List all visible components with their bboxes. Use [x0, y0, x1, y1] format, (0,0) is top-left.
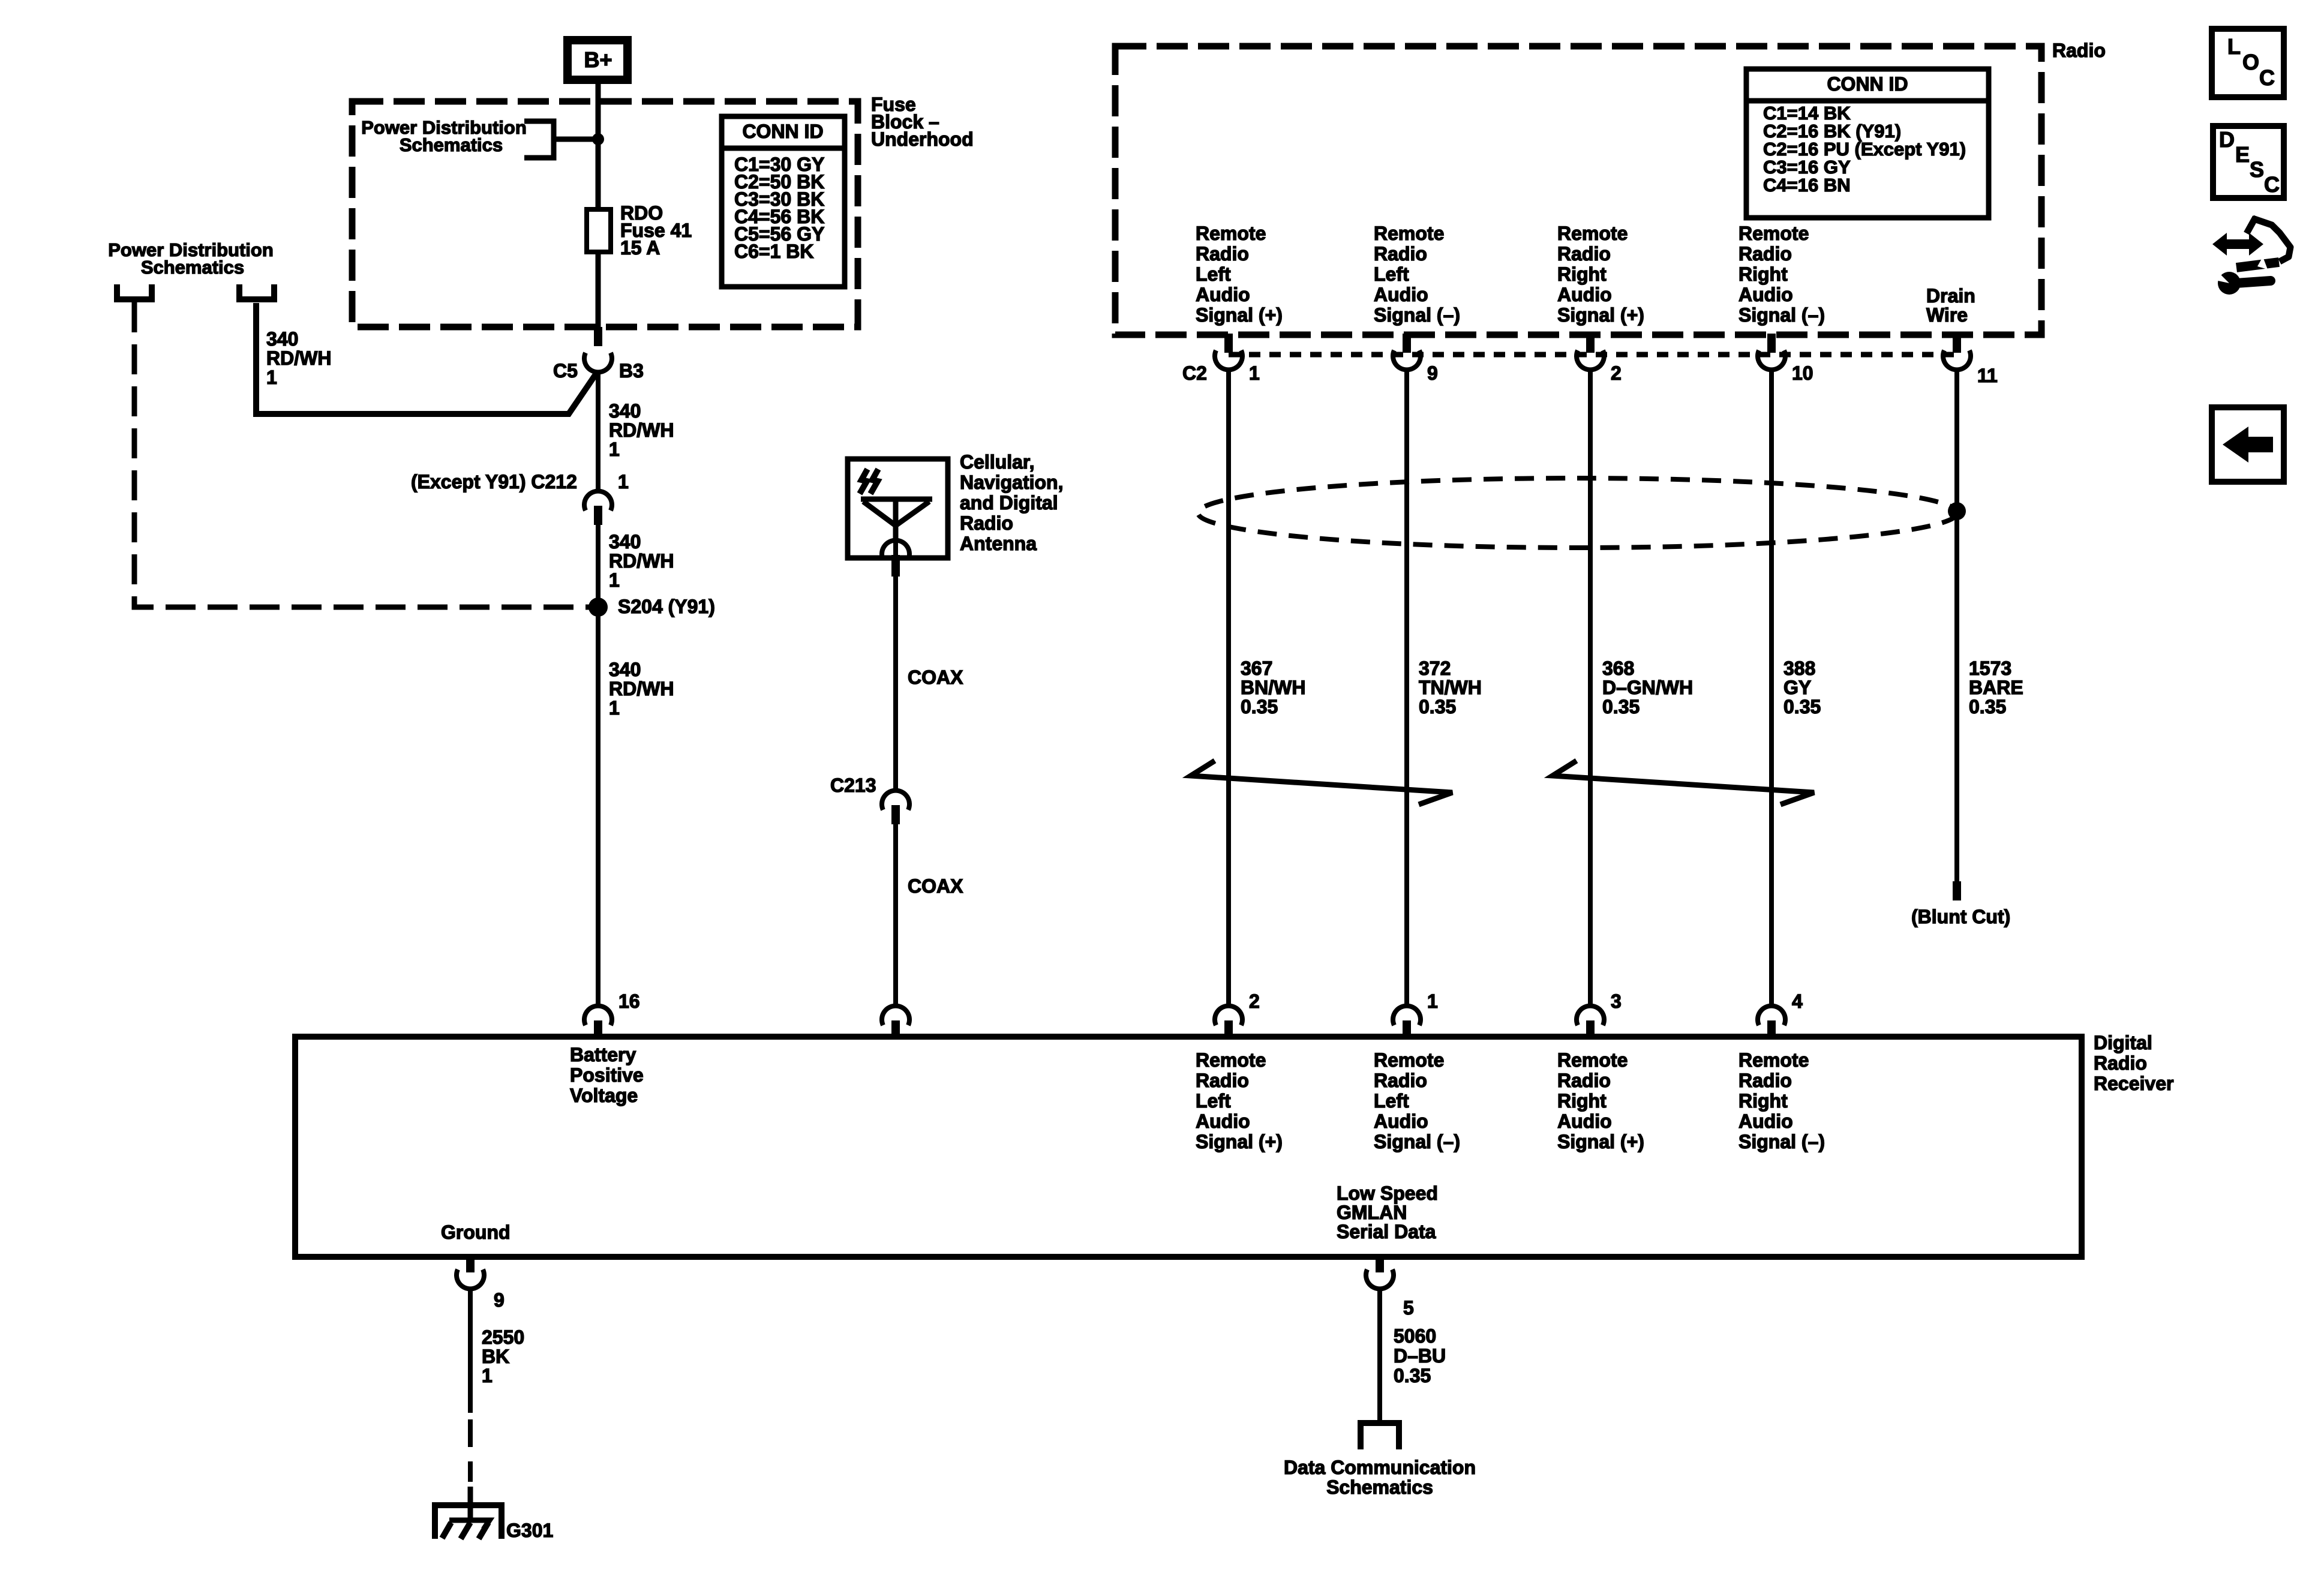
svg-text:RD/WH: RD/WH — [609, 550, 674, 572]
svg-text:Remote: Remote — [1196, 1049, 1266, 1071]
wire fuse to fuse block bottom — [596, 252, 601, 327]
svg-text:Left: Left — [1374, 1090, 1409, 1112]
svg-text:Radio: Radio — [1739, 243, 1792, 265]
svg-text:BARE: BARE — [1969, 677, 2023, 698]
wire drain — [1954, 369, 1959, 882]
svg-text:Antenna: Antenna — [960, 533, 1037, 554]
svg-text:Radio: Radio — [1196, 1070, 1249, 1091]
receiver connector pin 1 — [1393, 990, 1438, 1038]
receiver connector pin 2 — [1215, 990, 1260, 1038]
fuse block - underhood dashed box — [352, 101, 858, 327]
svg-text:340: 340 — [609, 531, 641, 553]
svg-text:Ground: Ground — [441, 1221, 511, 1243]
radio connector pin 1 — [1215, 334, 1260, 384]
svg-text:Data Communication: Data Communication — [1284, 1457, 1476, 1478]
svg-text:Audio: Audio — [1557, 284, 1612, 305]
svg-text:Navigation,: Navigation, — [960, 472, 1063, 493]
svg-text:4: 4 — [1792, 990, 1803, 1012]
svg-text:C5: C5 — [553, 360, 578, 382]
svg-text:Remote: Remote — [1739, 1049, 1809, 1071]
svg-text:Radio: Radio — [1374, 1070, 1427, 1091]
svg-text:Left: Left — [1196, 1090, 1231, 1112]
antenna connector — [882, 541, 909, 577]
power distribution schematics reference (inside fuse block) — [361, 117, 554, 158]
wire audio 1 — [1226, 369, 1231, 1007]
svg-text:9: 9 — [494, 1289, 505, 1311]
svg-text:Audio: Audio — [1739, 284, 1793, 305]
wire C5 branch to power distribution bracket B — [256, 303, 597, 414]
svg-text:Remote: Remote — [1557, 223, 1628, 244]
B+ battery terminal — [568, 40, 627, 80]
svg-text:D–BU: D–BU — [1394, 1345, 1446, 1367]
svg-text:CONN ID: CONN ID — [742, 121, 823, 142]
wire bracket to B+ wire — [554, 137, 598, 142]
svg-text:D–GN/WH: D–GN/WH — [1602, 677, 1693, 698]
svg-text:BN/WH: BN/WH — [1241, 677, 1305, 698]
svg-text:C2: C2 — [1182, 362, 1207, 384]
off-page bracket to data schematics — [1361, 1423, 1399, 1449]
svg-text:S204 (Y91): S204 (Y91) — [618, 596, 715, 617]
svg-text:367: 367 — [1241, 658, 1272, 679]
svg-text:5: 5 — [1403, 1297, 1414, 1319]
svg-text:RD/WH: RD/WH — [609, 678, 674, 700]
svg-text:C213: C213 — [830, 775, 876, 796]
svg-text:3: 3 — [1611, 990, 1622, 1012]
svg-text:2550: 2550 — [482, 1326, 524, 1348]
wire audio 3 — [1588, 369, 1593, 1007]
svg-text:B3: B3 — [619, 360, 644, 382]
connector C213 — [830, 775, 909, 824]
svg-text:Radio: Radio — [1739, 1070, 1792, 1091]
svg-text:Underhood: Underhood — [871, 128, 974, 150]
svg-text:340: 340 — [609, 659, 641, 680]
svg-text:Cellular,: Cellular, — [960, 451, 1035, 473]
receiver connector pin coax — [882, 1006, 909, 1038]
svg-text:10: 10 — [1792, 362, 1813, 384]
svg-text:Remote: Remote — [1739, 223, 1809, 244]
radio connector pin 2 — [1577, 334, 1622, 384]
svg-text:Radio: Radio — [1557, 1070, 1611, 1091]
svg-text:5060: 5060 — [1394, 1325, 1436, 1347]
svg-text:E: E — [2235, 142, 2250, 167]
svg-text:Right: Right — [1557, 1090, 1607, 1112]
svg-text:1: 1 — [1427, 990, 1438, 1012]
svg-text:GMLAN: GMLAN — [1337, 1202, 1407, 1223]
wire coax antenna to C213 — [893, 541, 898, 792]
svg-text:Signal (–): Signal (–) — [1739, 1131, 1825, 1152]
svg-text:Left: Left — [1196, 263, 1231, 285]
svg-text:11: 11 — [1977, 365, 1998, 386]
svg-text:1: 1 — [266, 367, 277, 388]
connector C5/B3 at fuse block output — [553, 327, 644, 382]
svg-text:Radio: Radio — [1196, 243, 1249, 265]
svg-text:G301: G301 — [506, 1520, 553, 1541]
svg-text:COAX: COAX — [908, 667, 963, 688]
svg-text:D: D — [2219, 127, 2235, 152]
svg-text:C: C — [2264, 172, 2280, 197]
blunt cut wire end — [1953, 881, 1961, 900]
svg-text:Signal (–): Signal (–) — [1374, 1131, 1460, 1152]
svg-text:(Except Y91) C212: (Except Y91) C212 — [411, 471, 577, 493]
svg-text:Radio: Radio — [960, 512, 1013, 534]
svg-text:Audio: Audio — [1196, 1110, 1250, 1132]
svg-text:BK: BK — [482, 1346, 509, 1367]
svg-text:Right: Right — [1739, 263, 1788, 285]
svg-text:Left: Left — [1374, 263, 1409, 285]
svg-text:0.35: 0.35 — [1602, 696, 1640, 718]
svg-text:Audio: Audio — [1374, 284, 1428, 305]
radio connector pin 11 (drain) — [1943, 334, 1998, 386]
svg-text:Radio: Radio — [2052, 40, 2106, 61]
off-page bracket A — [117, 284, 152, 299]
wire B+ to fuse block — [596, 77, 601, 211]
svg-text:Remote: Remote — [1196, 223, 1266, 244]
svg-text:Signal (+): Signal (+) — [1557, 1131, 1644, 1152]
fuse block CONN ID table — [722, 116, 845, 287]
svg-text:RD/WH: RD/WH — [266, 347, 331, 369]
svg-text:Positive: Positive — [570, 1064, 644, 1086]
wire C212 to S204 — [596, 525, 600, 607]
svg-text:Right: Right — [1557, 263, 1607, 285]
svg-text:O: O — [2242, 50, 2259, 74]
twisted pair symbol (right audio) — [1553, 761, 1814, 804]
svg-text:0.35: 0.35 — [1969, 696, 2006, 718]
svg-text:0.35: 0.35 — [1241, 696, 1278, 718]
receiver connector pin 16 — [584, 990, 640, 1038]
dotted C2 connector line — [1229, 352, 1957, 358]
receiver connector pin 4 — [1758, 990, 1803, 1038]
svg-text:Audio: Audio — [1196, 284, 1250, 305]
svg-text:B+: B+ — [584, 47, 612, 72]
wire 340 RD/WH from C5/B3 down — [596, 371, 600, 492]
svg-text:and Digital: and Digital — [960, 492, 1058, 514]
svg-text:1: 1 — [1249, 362, 1260, 384]
svg-text:Schematics: Schematics — [1326, 1476, 1433, 1498]
wrench/arrow service icon — [2212, 217, 2290, 295]
dashed wire to G301 — [468, 1419, 473, 1482]
svg-text:368: 368 — [1602, 658, 1634, 679]
svg-text:C6=1 BK: C6=1 BK — [734, 241, 814, 262]
svg-text:2: 2 — [1249, 990, 1260, 1012]
wire 5060 D-BU — [1377, 1288, 1382, 1422]
svg-text:Receiver: Receiver — [2094, 1073, 2173, 1094]
svg-text:Signal (+): Signal (+) — [1196, 1131, 1283, 1152]
svg-text:Radio: Radio — [2094, 1052, 2147, 1074]
svg-text:340: 340 — [266, 328, 298, 350]
svg-text:Right: Right — [1739, 1090, 1788, 1112]
antenna symbol — [860, 469, 932, 541]
svg-text:0.35: 0.35 — [1419, 696, 1456, 718]
svg-text:C4=16 BN: C4=16 BN — [1763, 175, 1851, 196]
svg-text:0.35: 0.35 — [1783, 696, 1821, 718]
receiver connector pin 3 — [1577, 990, 1622, 1038]
svg-text:Signal (–): Signal (–) — [1374, 304, 1460, 326]
svg-text:L: L — [2227, 34, 2241, 59]
svg-text:Remote: Remote — [1374, 1049, 1444, 1071]
digital radio receiver box — [295, 1037, 2082, 1257]
fuse RDO Fuse 41 15A — [587, 202, 692, 259]
svg-text:TN/WH: TN/WH — [1419, 677, 1482, 698]
svg-text:S: S — [2250, 157, 2264, 182]
svg-text:Remote: Remote — [1557, 1049, 1628, 1071]
svg-text:Schematics: Schematics — [141, 257, 244, 278]
svg-text:1: 1 — [609, 569, 620, 591]
svg-text:GY: GY — [1783, 677, 1811, 698]
twisted pair symbol (left audio) — [1191, 761, 1452, 804]
svg-text:9: 9 — [1427, 362, 1438, 384]
svg-text:Signal (+): Signal (+) — [1557, 304, 1644, 326]
svg-text:Radio: Radio — [1374, 243, 1427, 265]
svg-text:Audio: Audio — [1739, 1110, 1793, 1132]
svg-text:16: 16 — [618, 990, 640, 1012]
svg-text:340: 340 — [609, 400, 641, 422]
junction dot on B+ wire — [592, 133, 604, 145]
svg-text:(Blunt Cut): (Blunt Cut) — [1911, 906, 2010, 927]
svg-text:2: 2 — [1611, 362, 1622, 384]
wire S204 to receiver pin 16 — [596, 607, 600, 1007]
svg-text:1: 1 — [482, 1365, 493, 1386]
connector C212 (Except Y91) — [411, 471, 629, 525]
dashed wire from bracket A to splice S204 — [134, 302, 598, 607]
receiver connector pin 5 (GMLAN) — [1366, 1256, 1414, 1319]
back arrow icon — [2212, 407, 2284, 482]
svg-text:Low Speed: Low Speed — [1337, 1182, 1438, 1204]
svg-text:Serial Data: Serial Data — [1337, 1221, 1436, 1242]
shield dashed ellipse — [1198, 478, 1957, 548]
DESC icon — [2213, 126, 2284, 198]
svg-text:Signal (–): Signal (–) — [1739, 304, 1825, 326]
svg-text:1: 1 — [609, 439, 620, 460]
shield junction dot — [1948, 502, 1966, 520]
svg-text:Radio: Radio — [1557, 243, 1611, 265]
svg-text:Schematics: Schematics — [400, 134, 503, 155]
svg-text:CONN ID: CONN ID — [1827, 73, 1908, 95]
radio dashed box — [1115, 46, 2041, 335]
antenna box — [848, 459, 948, 558]
svg-text:Battery: Battery — [570, 1044, 636, 1065]
svg-text:Wire: Wire — [1926, 304, 1968, 326]
svg-text:Audio: Audio — [1374, 1110, 1428, 1132]
wire coax C213 to receiver — [893, 824, 898, 1007]
splice S204 (Y91) — [588, 598, 608, 617]
svg-text:1: 1 — [618, 471, 629, 493]
svg-text:388: 388 — [1783, 658, 1815, 679]
svg-text:Drain: Drain — [1926, 285, 1975, 307]
svg-text:15 A: 15 A — [620, 237, 660, 259]
svg-text:Audio: Audio — [1557, 1110, 1612, 1132]
svg-text:RD/WH: RD/WH — [609, 419, 674, 441]
radio connector pin 10 — [1758, 334, 1813, 384]
ground G301 — [435, 1487, 553, 1541]
svg-text:C: C — [2259, 65, 2275, 90]
svg-text:Remote: Remote — [1374, 223, 1444, 244]
wire 2550 BK — [468, 1288, 473, 1413]
radio CONN ID table — [1746, 69, 1989, 218]
wire audio 4 — [1769, 369, 1774, 1007]
receiver connector pin 9 (ground) — [457, 1256, 505, 1311]
svg-text:1: 1 — [609, 697, 620, 719]
svg-text:COAX: COAX — [908, 875, 963, 897]
LOC icon — [2212, 29, 2284, 97]
svg-text:Digital: Digital — [2094, 1032, 2152, 1053]
svg-text:Signal (+): Signal (+) — [1196, 304, 1283, 326]
radio connector pin 9 — [1393, 334, 1438, 384]
svg-text:0.35: 0.35 — [1394, 1365, 1431, 1386]
svg-text:Voltage: Voltage — [570, 1085, 638, 1106]
off-page bracket B — [239, 284, 274, 299]
wire audio 2 — [1404, 369, 1409, 1007]
svg-text:372: 372 — [1419, 658, 1451, 679]
svg-text:1573: 1573 — [1969, 658, 2011, 679]
